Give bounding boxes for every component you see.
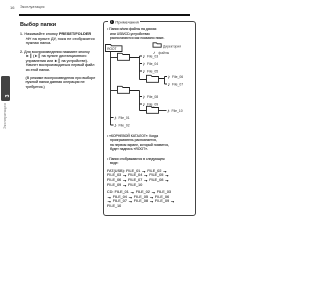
svg-text:файлы: файлы (159, 51, 170, 55)
svg-text:File_04: File_04 (147, 62, 158, 66)
svg-text:♪: ♪ (143, 102, 146, 108)
svg-text:File_10: File_10 (172, 109, 183, 113)
svg-text:♪: ♪ (114, 123, 117, 129)
svg-text:♪: ♪ (143, 69, 146, 75)
svg-text:File_05: File_05 (147, 70, 158, 74)
svg-text:♪: ♪ (114, 116, 117, 122)
svg-text:♪: ♪ (168, 75, 171, 81)
svg-text:♪: ♪ (168, 82, 171, 88)
svg-text:File_07: File_07 (172, 83, 183, 87)
svg-text:♪: ♪ (143, 62, 146, 68)
svg-text:File_08: File_08 (147, 95, 158, 99)
svg-text:♪: ♪ (167, 109, 170, 115)
svg-text:File_03: File_03 (147, 55, 158, 59)
svg-text:ROOT: ROOT (107, 47, 116, 51)
svg-text:File_09: File_09 (147, 103, 158, 107)
svg-text:File_06: File_06 (172, 75, 183, 79)
svg-text:♪: ♪ (143, 54, 146, 60)
svg-text:Директория: Директория (163, 44, 181, 48)
svg-text:File_01: File_01 (119, 116, 130, 120)
svg-text:File_02: File_02 (119, 124, 130, 128)
svg-text:♪: ♪ (143, 95, 146, 101)
